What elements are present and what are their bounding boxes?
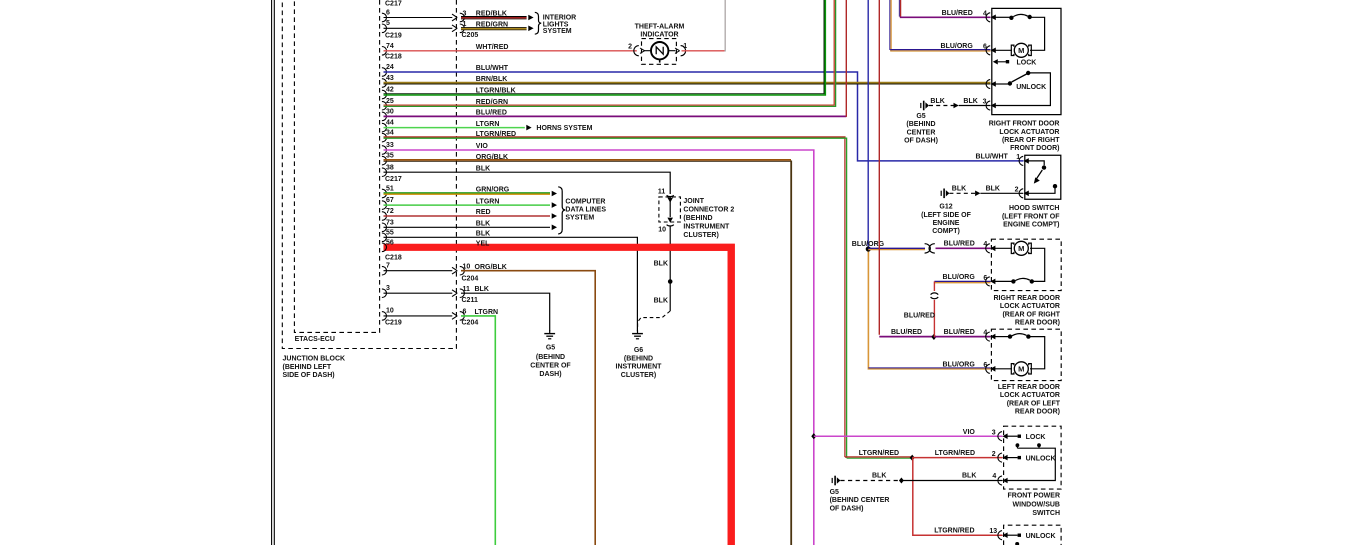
right front door lock actuator box bbox=[992, 8, 1061, 114]
ETACS pin 43 wire BRN/BLK to right front door unlock pin 2 bbox=[382, 79, 387, 88]
svg-text:42: 42 bbox=[386, 87, 394, 94]
svg-text:BLU/RED: BLU/RED bbox=[904, 313, 935, 320]
wire YEL thick highlight re-stroke over crossings bbox=[660, 247, 731, 545]
junction dot VIO bbox=[811, 433, 816, 439]
junction dot BLU/ORG bbox=[866, 246, 871, 251]
svg-text:SIDE OF DASH): SIDE OF DASH) bbox=[283, 372, 335, 379]
ground G6 (behind instrument cluster) bbox=[637, 330, 639, 333]
svg-text:JOINT: JOINT bbox=[683, 198, 704, 205]
svg-text:G5: G5 bbox=[916, 113, 925, 120]
svg-text:35: 35 bbox=[386, 153, 394, 160]
right rear internal switch bbox=[993, 280, 1012, 282]
ETACS pin 25 wire RED/GRN bbox=[382, 101, 387, 110]
ETACS pin 33 wire VIO bbox=[382, 146, 387, 155]
wire WHT/RED from theft-alarm pin 1 up to top bbox=[682, 50, 726, 52]
svg-text:C219: C219 bbox=[385, 33, 402, 40]
wire BLU/ORG right rear pin 6 down through inline connector bbox=[934, 280, 990, 282]
svg-text:VIO: VIO bbox=[963, 429, 976, 436]
junction dot BLU/RED bbox=[931, 334, 936, 340]
svg-text:WHT/RED: WHT/RED bbox=[476, 44, 509, 51]
svg-text:RED/GRN: RED/GRN bbox=[476, 21, 508, 28]
pin 13 rear switch bbox=[998, 531, 1002, 540]
svg-text:FRONT POWER: FRONT POWER bbox=[1008, 493, 1061, 500]
wire BLU/ORG junction to inline connector to right rear pin 4 BLU/RED bbox=[868, 247, 925, 249]
svg-text:YEL: YEL bbox=[476, 241, 490, 248]
ETACS pin 3 jumper wire to pin 11 bbox=[382, 289, 387, 298]
ETACS pin 5 jumper wire to C205 pin 1 bbox=[382, 24, 387, 33]
ETACS pin 38 wire BLK to joint connector 2 bbox=[382, 168, 387, 177]
ETACS pin 67 wire LTGRN to computer data lines bbox=[382, 201, 387, 210]
wire VIO junction to pin 3 bbox=[814, 435, 1003, 437]
wire BLU/RED from top to left rear pin 4 bbox=[878, 0, 880, 335]
wire LTGRN/RED junction to pin 2 bbox=[912, 457, 1002, 459]
svg-text:LTGRN: LTGRN bbox=[476, 198, 500, 205]
svg-text:C217: C217 bbox=[385, 0, 402, 7]
svg-text:M: M bbox=[1018, 365, 1024, 374]
svg-text:C219: C219 bbox=[385, 320, 402, 327]
right front door internal switch pin 4 bbox=[994, 16, 1010, 18]
svg-text:55: 55 bbox=[386, 229, 394, 236]
svg-text:BLK: BLK bbox=[952, 186, 966, 193]
svg-text:(BEHIND LEFT: (BEHIND LEFT bbox=[283, 364, 332, 371]
svg-text:CENTER: CENTER bbox=[907, 129, 936, 136]
svg-text:BLK: BLK bbox=[476, 165, 490, 172]
svg-text:RED: RED bbox=[476, 209, 491, 216]
contact stub at bottom edge bbox=[1015, 542, 1019, 546]
ETACS pin 34 wire LTGRN/RED bbox=[382, 133, 387, 142]
pin 2 front power window sub switch bbox=[998, 453, 1002, 462]
pin 4 right front door bbox=[986, 13, 990, 22]
ETACS pin 7 jumper wire to pin 10 bbox=[382, 266, 387, 275]
svg-text:BLU/ORG: BLU/ORG bbox=[943, 361, 976, 368]
svg-text:(BEHIND CENTER: (BEHIND CENTER bbox=[830, 497, 890, 504]
svg-text:SYSTEM: SYSTEM bbox=[565, 214, 594, 221]
inline connector symbol on vertical wire bbox=[931, 293, 939, 295]
svg-text:DATA LINES: DATA LINES bbox=[565, 207, 606, 214]
svg-text:UNLOCK: UNLOCK bbox=[1016, 84, 1046, 91]
svg-text:BLU/ORG: BLU/ORG bbox=[941, 43, 974, 50]
ground G5 (behind center of dash) bottom bbox=[831, 478, 833, 483]
svg-text:DASH): DASH) bbox=[539, 371, 561, 378]
front power window sub switch dashed box bbox=[1004, 426, 1062, 489]
pin 4 front power window sub switch bbox=[998, 476, 1002, 485]
svg-text:25: 25 bbox=[386, 98, 394, 105]
pin 2 right front door bbox=[986, 79, 990, 88]
svg-text:24: 24 bbox=[386, 64, 394, 71]
svg-text:10: 10 bbox=[658, 227, 666, 234]
ETACS pin 44 wire LTGRN to horns system bbox=[382, 123, 387, 132]
svg-text:43: 43 bbox=[386, 75, 394, 82]
svg-text:WINDOW/SUB: WINDOW/SUB bbox=[1013, 501, 1060, 508]
svg-text:BLK: BLK bbox=[476, 221, 490, 228]
svg-text:72: 72 bbox=[386, 208, 394, 215]
motor M left rear door bbox=[993, 368, 1012, 370]
svg-text:6: 6 bbox=[463, 309, 467, 316]
svg-text:COMPT): COMPT) bbox=[932, 228, 960, 235]
joint connector 2 dashed box bbox=[659, 197, 681, 222]
ETACS pin 6 jumper wire to C205 pin 3 bbox=[382, 13, 387, 22]
svg-text:BLU/RED: BLU/RED bbox=[476, 110, 507, 117]
svg-text:(LEFT FRONT OF: (LEFT FRONT OF bbox=[1002, 213, 1060, 220]
svg-text:11: 11 bbox=[658, 188, 666, 195]
svg-text:REAR DOOR): REAR DOOR) bbox=[1015, 320, 1060, 327]
svg-text:HOOD SWITCH: HOOD SWITCH bbox=[1009, 205, 1060, 212]
svg-text:BLK: BLK bbox=[475, 286, 489, 293]
wire BLU/ORG from top to right front pin 6 bbox=[890, 0, 892, 51]
ETACS pin 74 wire WHT/RED to theft-alarm indicator bbox=[382, 47, 387, 56]
svg-text:BLU/WHT: BLU/WHT bbox=[476, 65, 509, 72]
svg-text:BLU/WHT: BLU/WHT bbox=[976, 154, 1009, 161]
svg-text:(REAR OF RIGHT: (REAR OF RIGHT bbox=[1002, 137, 1060, 144]
svg-text:2: 2 bbox=[992, 451, 996, 458]
svg-text:BLU/RED: BLU/RED bbox=[891, 329, 922, 336]
svg-text:INSTRUMENT: INSTRUMENT bbox=[683, 223, 730, 230]
svg-text:(REAR OF RIGHT: (REAR OF RIGHT bbox=[1002, 311, 1060, 318]
svg-text:BLU/RED: BLU/RED bbox=[942, 10, 973, 17]
svg-text:LTGRN/RED: LTGRN/RED bbox=[859, 450, 899, 457]
svg-text:JUNCTION BLOCK: JUNCTION BLOCK bbox=[283, 356, 346, 363]
svg-text:THEFT-ALARM: THEFT-ALARM bbox=[635, 23, 685, 30]
junction block dashed box bbox=[282, 0, 456, 349]
ground G12 (left side of engine compt) bbox=[940, 191, 942, 196]
svg-text:BLU/RED: BLU/RED bbox=[944, 241, 975, 248]
svg-text:BLK: BLK bbox=[962, 473, 976, 480]
wire LTGRN/RED corner to junction bbox=[845, 456, 912, 458]
pin 6 left rear door bbox=[986, 364, 990, 373]
svg-text:6: 6 bbox=[386, 9, 390, 16]
svg-text:OF DASH): OF DASH) bbox=[904, 138, 938, 145]
pin 3 front power window sub switch bbox=[998, 432, 1002, 441]
svg-text:RED/BLK: RED/BLK bbox=[476, 11, 507, 18]
svg-text:LEFT REAR DOOR: LEFT REAR DOOR bbox=[998, 384, 1060, 391]
ETACS pin 42 wire LTGRN/BLK bbox=[382, 90, 387, 99]
triangle splice on BLK bbox=[954, 103, 959, 109]
svg-text:(BEHIND: (BEHIND bbox=[536, 354, 565, 361]
svg-text:(LEFT SIDE OF: (LEFT SIDE OF bbox=[921, 212, 972, 219]
svg-text:CONNECTOR 2: CONNECTOR 2 bbox=[683, 207, 734, 214]
svg-text:C204: C204 bbox=[462, 276, 479, 283]
svg-text:RIGHT REAR DOOR: RIGHT REAR DOOR bbox=[994, 295, 1061, 302]
brace COMPUTER DATA LINES SYSTEM bbox=[558, 187, 565, 234]
wire RED/GRN from C205 pin 1 bbox=[461, 26, 527, 28]
ETACS pin 35 wire ORG/BLK bbox=[382, 156, 387, 165]
splice dot on BLK wire bbox=[668, 279, 673, 284]
ETACS pin 56 wire YEL (highlighted thick red) bbox=[384, 247, 732, 545]
ETACS pin 55 wire BLK to ground G6 bbox=[382, 233, 387, 242]
ground G5 (behind center of dash) at right front door bbox=[920, 103, 922, 108]
ground G5 (behind center of dash) bbox=[549, 330, 551, 333]
svg-text:G6: G6 bbox=[634, 347, 643, 354]
svg-text:LTGRN/RED: LTGRN/RED bbox=[935, 450, 975, 457]
svg-text:M: M bbox=[1018, 46, 1024, 55]
svg-text:LTGRN: LTGRN bbox=[476, 121, 500, 128]
svg-text:BLK: BLK bbox=[476, 231, 490, 238]
junction dot LTGRN/RED bbox=[910, 455, 915, 461]
page border left double line bbox=[271, 0, 273, 545]
svg-text:COMPUTER: COMPUTER bbox=[565, 198, 605, 205]
svg-text:HORNS SYSTEM: HORNS SYSTEM bbox=[536, 125, 592, 132]
svg-text:UNLOCK: UNLOCK bbox=[1026, 533, 1056, 540]
svg-text:UNLOCK: UNLOCK bbox=[1026, 455, 1056, 462]
svg-text:38: 38 bbox=[386, 164, 394, 171]
svg-text:OF DASH): OF DASH) bbox=[830, 505, 864, 512]
motor M right rear door bbox=[993, 247, 1012, 249]
junction dot BLK bbox=[899, 478, 904, 484]
ETACS pin 51 wire GRN/ORG to computer data lines bbox=[382, 189, 387, 198]
svg-text:4: 4 bbox=[992, 473, 996, 480]
svg-text:34: 34 bbox=[386, 130, 394, 137]
rear power window switch dashed box (cut) bbox=[1004, 525, 1062, 545]
svg-text:67: 67 bbox=[386, 197, 394, 204]
svg-text:CLUSTER): CLUSTER) bbox=[683, 232, 718, 239]
svg-text:BLK: BLK bbox=[654, 298, 668, 305]
svg-text:ETACS-ECU: ETACS-ECU bbox=[295, 336, 335, 343]
pin 3 right front door bbox=[986, 101, 990, 110]
svg-text:RIGHT FRONT DOOR: RIGHT FRONT DOOR bbox=[989, 121, 1060, 128]
svg-text:(BEHIND: (BEHIND bbox=[624, 355, 653, 362]
svg-text:BLK: BLK bbox=[654, 260, 668, 267]
svg-text:C204: C204 bbox=[462, 319, 479, 326]
svg-text:2: 2 bbox=[628, 43, 632, 50]
left rear door lock actuator dashed box bbox=[991, 329, 1061, 380]
svg-text:2: 2 bbox=[1015, 186, 1019, 193]
svg-text:BLU/RED: BLU/RED bbox=[944, 329, 975, 336]
svg-text:LTGRN/RED: LTGRN/RED bbox=[934, 528, 974, 535]
svg-text:BLK: BLK bbox=[963, 98, 977, 105]
pin 4 left rear door bbox=[986, 332, 990, 341]
ETACS pin 24 wire BLU/WHT bbox=[382, 68, 387, 77]
wire BLU/RED from top to right front pin 4 bbox=[900, 0, 902, 17]
svg-text:BLK: BLK bbox=[930, 98, 944, 105]
svg-text:C205: C205 bbox=[462, 32, 479, 39]
svg-text:BLK: BLK bbox=[872, 473, 886, 480]
svg-text:(BEHIND: (BEHIND bbox=[683, 215, 712, 222]
svg-text:33: 33 bbox=[386, 142, 394, 149]
ETACS pin 10 jumper wire to pin 6 bbox=[382, 312, 387, 321]
svg-text:10: 10 bbox=[386, 308, 394, 315]
svg-text:11: 11 bbox=[463, 286, 471, 293]
svg-text:13: 13 bbox=[989, 528, 997, 535]
svg-text:ENGINE COMPT): ENGINE COMPT) bbox=[1003, 222, 1059, 229]
right rear door lock actuator dashed box bbox=[991, 239, 1061, 290]
wire BLU/ORG from top to junction and left rear pin 6 bbox=[867, 0, 869, 249]
svg-text:REAR DOOR): REAR DOOR) bbox=[1015, 408, 1060, 415]
svg-text:G12: G12 bbox=[939, 204, 952, 211]
svg-text:44: 44 bbox=[386, 120, 394, 127]
svg-text:SWITCH: SWITCH bbox=[1032, 510, 1060, 517]
svg-text:LTGRN: LTGRN bbox=[475, 309, 499, 316]
motor M right front door bbox=[994, 49, 1013, 51]
dashed BLK wire to ground G6 bbox=[638, 311, 671, 329]
svg-text:M: M bbox=[1018, 244, 1024, 253]
svg-text:C211: C211 bbox=[462, 297, 478, 304]
svg-text:(BEHIND: (BEHIND bbox=[906, 121, 935, 128]
left rear internal switch bbox=[993, 336, 1008, 338]
svg-text:56: 56 bbox=[386, 239, 394, 246]
ETACS pin 73 wire BLK to computer data lines bbox=[382, 223, 387, 232]
svg-text:C218: C218 bbox=[385, 53, 402, 60]
pin 4 right rear door bbox=[986, 244, 990, 253]
svg-text:5: 5 bbox=[386, 20, 390, 27]
svg-text:ENGINE: ENGINE bbox=[933, 220, 960, 227]
svg-text:74: 74 bbox=[386, 43, 394, 50]
svg-text:FRONT DOOR): FRONT DOOR) bbox=[1010, 145, 1059, 152]
hood switch internal blade bbox=[1027, 161, 1045, 165]
pin 6 right rear door bbox=[986, 277, 990, 286]
inline connector symbol bbox=[925, 244, 931, 253]
svg-text:ORG/BLK: ORG/BLK bbox=[475, 264, 507, 271]
pin 6 right front door bbox=[986, 46, 990, 55]
svg-text:C218: C218 bbox=[385, 255, 402, 262]
svg-text:LOCK: LOCK bbox=[1026, 434, 1046, 441]
svg-text:51: 51 bbox=[386, 186, 394, 193]
svg-text:73: 73 bbox=[386, 219, 394, 226]
svg-text:SYSTEM: SYSTEM bbox=[543, 28, 572, 35]
wire LTGRN/RED junction down to pin 13 bbox=[913, 458, 1003, 536]
svg-text:3: 3 bbox=[992, 429, 996, 436]
pin 1 hood switch bbox=[1019, 156, 1023, 165]
svg-text:INSTRUMENT: INSTRUMENT bbox=[616, 364, 663, 371]
ETACS pin 30 wire BLU/RED bbox=[382, 112, 387, 121]
svg-text:BLK: BLK bbox=[986, 186, 1000, 193]
svg-text:CENTER OF: CENTER OF bbox=[530, 363, 571, 370]
svg-text:3: 3 bbox=[386, 285, 390, 292]
svg-text:G5: G5 bbox=[546, 344, 555, 351]
ETACS-ECU dashed box bbox=[294, 0, 379, 332]
svg-text:VIO: VIO bbox=[476, 143, 489, 150]
svg-text:7: 7 bbox=[386, 263, 390, 270]
svg-text:(REAR OF LEFT: (REAR OF LEFT bbox=[1007, 400, 1061, 407]
svg-text:G5: G5 bbox=[830, 489, 839, 496]
svg-text:C217: C217 bbox=[385, 176, 402, 183]
lock direction arrow bbox=[993, 59, 998, 64]
svg-text:30: 30 bbox=[386, 109, 394, 116]
brace INTERIOR LIGHTS SYSTEM bbox=[535, 12, 541, 34]
svg-text:LOCK ACTUATOR: LOCK ACTUATOR bbox=[1000, 392, 1060, 399]
ETACS pin 72 wire RED to computer data lines bbox=[382, 212, 387, 221]
svg-text:BLU/ORG: BLU/ORG bbox=[943, 274, 976, 281]
switch common bar bbox=[1016, 443, 1020, 447]
svg-text:10: 10 bbox=[463, 264, 471, 271]
svg-text:CLUSTER): CLUSTER) bbox=[621, 372, 656, 379]
pin 2 hood switch bbox=[1019, 189, 1023, 198]
wire RED/BLK from C205 pin 3 bbox=[461, 16, 527, 18]
svg-text:LOCK: LOCK bbox=[1017, 59, 1037, 66]
right front door internal switch pin 2 unlock bbox=[994, 83, 1009, 85]
svg-text:INDICATOR: INDICATOR bbox=[640, 32, 678, 39]
svg-text:6: 6 bbox=[983, 362, 987, 369]
svg-text:LOCK ACTUATOR: LOCK ACTUATOR bbox=[999, 129, 1059, 136]
hood switch box bbox=[1025, 155, 1061, 199]
svg-text:LOCK ACTUATOR: LOCK ACTUATOR bbox=[1000, 303, 1060, 310]
